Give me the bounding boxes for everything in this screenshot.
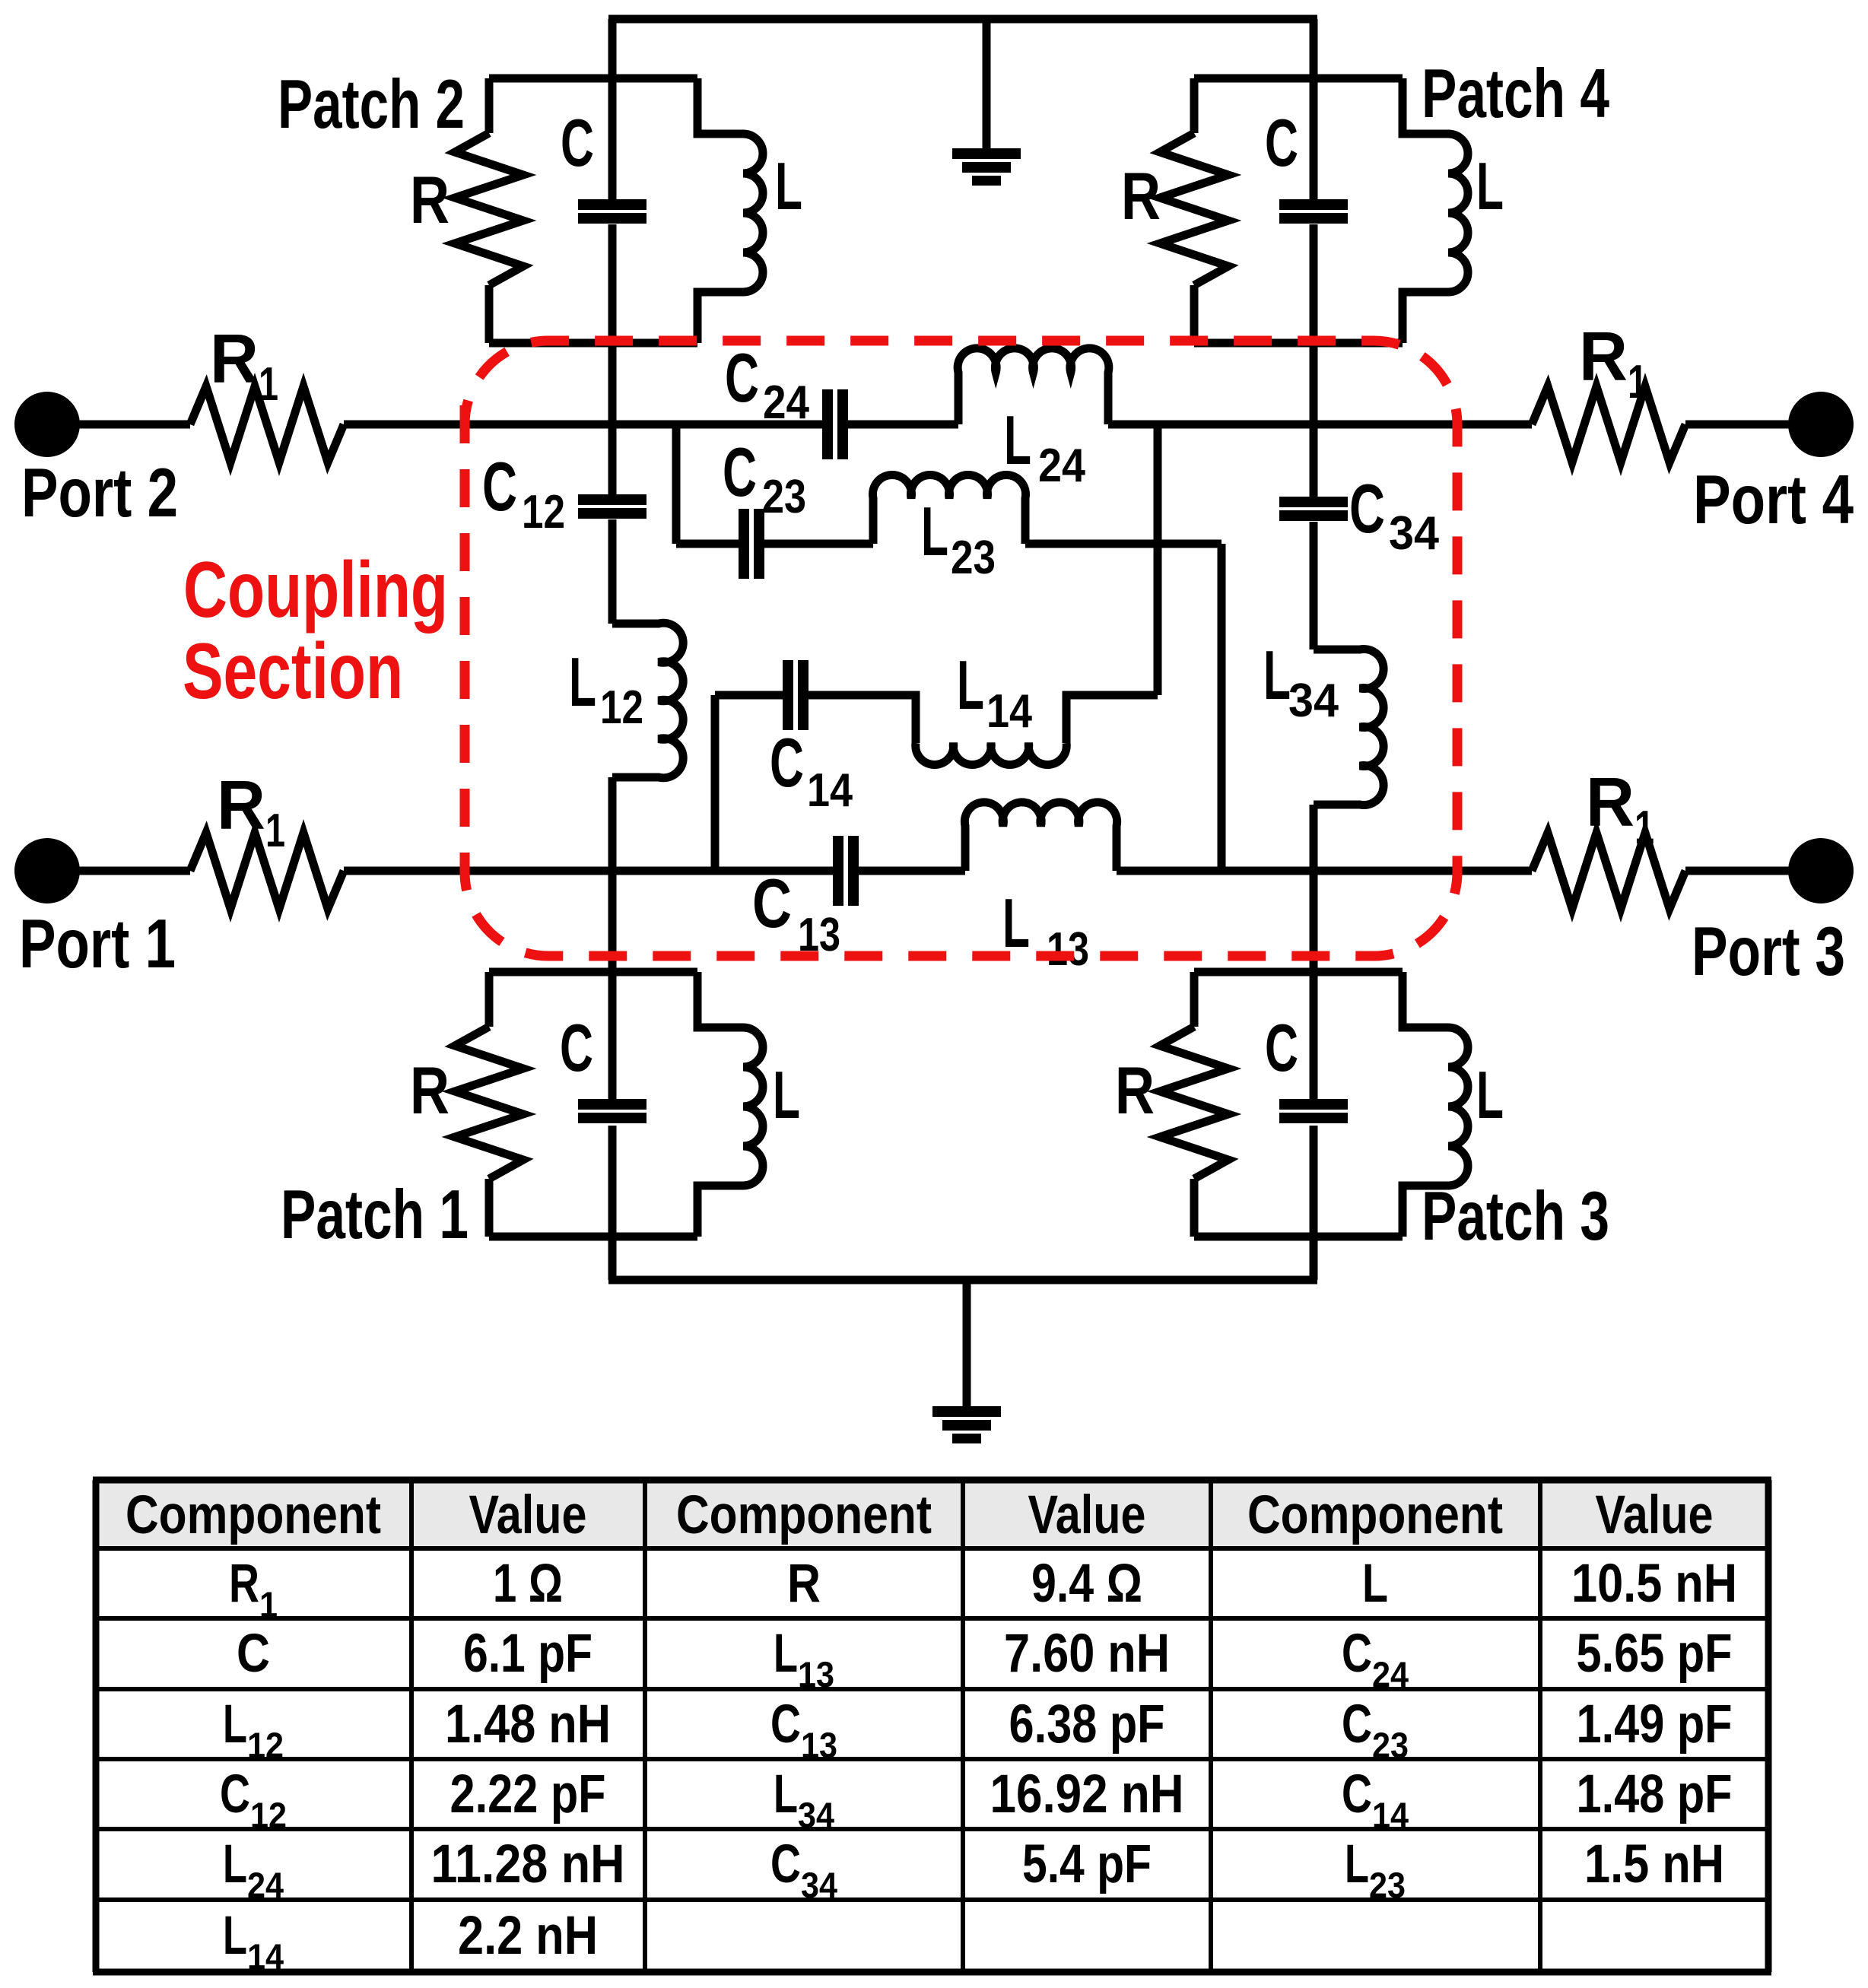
svg-text:Patch 1: Patch 1 <box>281 1177 469 1253</box>
svg-text:12: 12 <box>250 1795 287 1835</box>
svg-text:C: C <box>1342 1624 1372 1684</box>
wire L13 to port3 R1 <box>1117 867 1532 875</box>
wire patch box bottom edge (patch 2) <box>489 339 697 348</box>
svg-text:14: 14 <box>1372 1795 1409 1835</box>
svg-text:12: 12 <box>522 486 565 538</box>
svg-text:R: R <box>210 321 259 398</box>
svg-text:R: R <box>1586 764 1634 841</box>
svg-text:34: 34 <box>1288 675 1339 727</box>
capacitor C patch (patch 4) <box>1279 199 1348 210</box>
svg-text:R: R <box>410 162 450 237</box>
svg-text:34: 34 <box>1389 507 1439 560</box>
wire C23 branch vertical <box>672 424 681 544</box>
wire patch L top lead (patch 3) <box>1403 972 1448 1027</box>
svg-text:1.48 nH: 1.48 nH <box>445 1694 611 1755</box>
wire patch R top lead (patch 4) <box>1190 78 1199 133</box>
wire patch box bottom edge (patch 4) <box>1194 339 1403 348</box>
svg-text:23: 23 <box>762 471 806 523</box>
svg-text:L: L <box>569 644 596 721</box>
table header background <box>96 1480 1768 1548</box>
ground bottom <box>932 1406 1001 1417</box>
wire patch R bottom lead (patch 4) <box>1190 285 1199 343</box>
svg-text:13: 13 <box>798 1654 834 1694</box>
svg-text:11.28 nH: 11.28 nH <box>431 1834 625 1894</box>
wire L14 branch to port2 line <box>1154 424 1162 695</box>
svg-text:12: 12 <box>600 681 643 734</box>
wire C14 branch vertical <box>711 695 720 871</box>
wire L14 to up vertical <box>1066 695 1158 743</box>
svg-text:6.38 pF: 6.38 pF <box>1009 1694 1165 1755</box>
svg-text:34: 34 <box>798 1795 834 1835</box>
wire top rail <box>608 15 1317 24</box>
svg-text:24: 24 <box>247 1865 284 1905</box>
svg-text:7.60 nH: 7.60 nH <box>1004 1624 1170 1684</box>
svg-text:C: C <box>1265 105 1298 180</box>
inductor L12 <box>612 623 683 778</box>
svg-text:R: R <box>1579 319 1628 395</box>
svg-text:23: 23 <box>1369 1865 1406 1905</box>
inductor L patch (patch 1) <box>743 1027 763 1186</box>
svg-text:C: C <box>770 1694 801 1755</box>
svg-text:C: C <box>560 1010 593 1085</box>
capacitor C14 <box>783 660 793 730</box>
resistor R1 port2 <box>190 386 344 462</box>
svg-text:1.49 pF: 1.49 pF <box>1577 1694 1733 1755</box>
svg-text:1.48 pF: 1.48 pF <box>1577 1764 1733 1824</box>
wire patch L top lead (patch 1) <box>697 972 743 1027</box>
wire patch box top edge (patch 2) <box>489 75 697 83</box>
svg-text:R: R <box>217 767 265 844</box>
wire R1 to C24 <box>344 421 824 429</box>
wire C23 to L23 <box>762 540 873 548</box>
inductor L24 <box>958 348 1109 424</box>
svg-text:2.2 nH: 2.2 nH <box>458 1906 598 1966</box>
capacitor C34 <box>1279 497 1348 507</box>
wire C24 to L24 <box>846 421 958 429</box>
svg-text:L: L <box>1476 1057 1504 1132</box>
svg-text:Port 2: Port 2 <box>21 455 178 532</box>
inductor L34 <box>1314 649 1384 805</box>
wire left bus upper <box>608 19 617 199</box>
svg-text:L: L <box>773 1057 800 1132</box>
svg-text:R: R <box>410 1053 450 1128</box>
wire left bus L12 to patch1-C <box>608 777 617 1099</box>
wire patch box bottom edge (patch 3) <box>1194 1233 1403 1241</box>
svg-text:13: 13 <box>801 1725 837 1765</box>
wire left bus patch1-C to rail <box>608 1126 617 1280</box>
svg-text:34: 34 <box>801 1865 837 1905</box>
svg-text:C: C <box>237 1624 270 1684</box>
svg-text:14: 14 <box>247 1936 284 1977</box>
svg-text:C: C <box>1342 1694 1372 1755</box>
wire R1 to port3 <box>1685 867 1821 875</box>
svg-text:Component: Component <box>676 1485 932 1545</box>
svg-text:1: 1 <box>259 1584 278 1624</box>
svg-text:C: C <box>723 434 757 511</box>
svg-text:L: L <box>223 1694 247 1755</box>
port 3 terminal <box>1788 838 1854 903</box>
svg-text:L: L <box>775 148 802 224</box>
svg-text:9.4 Ω: 9.4 Ω <box>1031 1554 1142 1614</box>
wire R1 to port4 <box>1685 421 1821 429</box>
svg-text:13: 13 <box>1047 923 1089 976</box>
svg-text:L: L <box>223 1834 247 1894</box>
capacitor C13 <box>833 836 843 906</box>
resistor R1 port4 <box>1532 386 1685 462</box>
svg-text:C: C <box>752 865 792 942</box>
svg-text:C: C <box>1349 471 1385 548</box>
svg-text:L: L <box>957 647 984 724</box>
svg-text:C: C <box>725 340 759 417</box>
table grid <box>93 1480 100 1972</box>
wire L23 branch to port1 line <box>1218 544 1226 871</box>
wire bottom rail <box>608 1276 1317 1285</box>
wire patch box top edge (patch 3) <box>1194 968 1403 977</box>
wire C13 to L13 <box>856 867 965 875</box>
port 1 terminal <box>14 838 80 903</box>
svg-text:L: L <box>1345 1834 1369 1894</box>
capacitor C patch (patch 1) <box>578 1099 646 1110</box>
wire patch box bottom edge (patch 1) <box>489 1233 697 1241</box>
wire patch box top edge (patch 4) <box>1194 75 1403 83</box>
wire right bus patch4-C to C34 <box>1310 224 1318 497</box>
svg-text:Section: Section <box>183 627 403 716</box>
inductor L13 <box>964 802 1117 871</box>
svg-text:L: L <box>1002 885 1030 962</box>
svg-text:L: L <box>223 1906 247 1966</box>
svg-text:C: C <box>220 1764 250 1824</box>
svg-text:Value: Value <box>1596 1485 1714 1545</box>
svg-text:1: 1 <box>259 358 278 411</box>
coupling section dashed box <box>465 341 1457 956</box>
inductor L patch (patch 4) <box>1448 134 1468 292</box>
svg-text:23: 23 <box>951 532 996 584</box>
svg-text:L: L <box>774 1624 798 1684</box>
svg-text:6.1 pF: 6.1 pF <box>463 1624 592 1684</box>
wire patch L bottom lead (patch 4) <box>1403 292 1448 343</box>
inductor L patch (patch 3) <box>1448 1027 1468 1186</box>
capacitor C patch (patch 3) <box>1279 1099 1348 1110</box>
wire patch R bottom lead (patch 2) <box>485 285 494 343</box>
wire patch R top lead (patch 1) <box>485 972 494 1027</box>
wire bottom ground stub <box>963 1280 971 1408</box>
svg-text:12: 12 <box>247 1725 284 1765</box>
svg-text:Component: Component <box>1247 1485 1503 1545</box>
inductor L14 <box>916 743 1067 765</box>
capacitor C23 <box>739 509 749 579</box>
wire right bus upper <box>1310 19 1318 199</box>
wire patch R top lead (patch 3) <box>1190 972 1199 1027</box>
wire right bus patch3-C to rail <box>1310 1126 1318 1280</box>
svg-text:R: R <box>229 1554 259 1614</box>
svg-text:C: C <box>482 449 517 526</box>
resistor R1 port3 <box>1532 833 1685 909</box>
wire port2 to R1 <box>47 421 190 429</box>
svg-text:Coupling: Coupling <box>183 546 448 634</box>
wire patch box top edge (patch 1) <box>489 968 697 977</box>
svg-text:R: R <box>1121 158 1161 233</box>
svg-text:L: L <box>1476 148 1504 224</box>
svg-text:2.22 pF: 2.22 pF <box>450 1764 606 1824</box>
resistor R patch (patch 3) <box>1160 1027 1228 1179</box>
svg-text:C: C <box>1265 1010 1298 1085</box>
svg-text:Patch 3: Patch 3 <box>1422 1178 1609 1255</box>
resistor R patch (patch 1) <box>455 1027 523 1179</box>
wire C14 branch left <box>715 691 786 700</box>
svg-text:L: L <box>1004 402 1031 479</box>
svg-text:1: 1 <box>1628 356 1647 408</box>
wire patch L top lead (patch 4) <box>1403 78 1448 134</box>
svg-text:Port 3: Port 3 <box>1692 913 1845 990</box>
svg-text:Value: Value <box>469 1485 587 1545</box>
svg-text:10.5 nH: 10.5 nH <box>1571 1554 1737 1614</box>
wire L23 to right vertical <box>1025 540 1222 548</box>
svg-text:C: C <box>770 725 804 802</box>
wire patch R bottom lead (patch 3) <box>1190 1179 1199 1237</box>
ground top <box>952 148 1021 159</box>
svg-text:Component: Component <box>125 1485 381 1545</box>
inductor L23 <box>873 475 1026 544</box>
svg-text:Patch 2: Patch 2 <box>278 66 465 143</box>
svg-text:R: R <box>787 1554 821 1614</box>
wire C23 branch left <box>676 540 742 548</box>
svg-text:1 Ω: 1 Ω <box>493 1554 563 1614</box>
svg-text:5.65 pF: 5.65 pF <box>1577 1624 1733 1684</box>
resistor R1 port1 <box>190 833 344 909</box>
resistor R patch (patch 4) <box>1160 133 1228 285</box>
wire top ground stub <box>983 19 991 150</box>
wire port1 to R1 <box>47 867 190 875</box>
svg-text:Patch 4: Patch 4 <box>1422 56 1609 132</box>
svg-text:L: L <box>1362 1554 1388 1614</box>
svg-text:C: C <box>561 105 594 180</box>
svg-text:L: L <box>774 1764 798 1824</box>
wire patch L bottom lead (patch 2) <box>697 292 743 343</box>
svg-text:L: L <box>1263 637 1291 714</box>
wire L24 to port4 R1 <box>1108 421 1532 429</box>
svg-text:R: R <box>1115 1053 1155 1128</box>
wire patch R top lead (patch 2) <box>485 78 494 133</box>
svg-text:L: L <box>921 494 948 570</box>
wire left bus patch2-C to C12 <box>608 224 617 494</box>
wire R1 to C13 <box>344 867 835 875</box>
resistor R patch (patch 2) <box>455 133 523 285</box>
inductor L patch (patch 2) <box>743 134 763 292</box>
svg-text:1.5 nH: 1.5 nH <box>1584 1834 1724 1894</box>
wire C14 to L14 <box>806 695 916 743</box>
svg-text:5.4 pF: 5.4 pF <box>1022 1834 1152 1894</box>
svg-text:Value: Value <box>1028 1485 1146 1545</box>
svg-text:Port 4: Port 4 <box>1693 462 1854 538</box>
wire patch L top lead (patch 2) <box>697 78 743 134</box>
svg-text:24: 24 <box>1372 1654 1409 1694</box>
capacitor C24 <box>822 389 833 459</box>
svg-text:23: 23 <box>1372 1725 1409 1765</box>
svg-text:C: C <box>1342 1764 1372 1824</box>
wire patch R bottom lead (patch 1) <box>485 1179 494 1237</box>
wire left bus C12 to L12 <box>608 519 617 624</box>
capacitor C12 <box>578 494 646 505</box>
svg-text:14: 14 <box>986 685 1032 738</box>
svg-text:14: 14 <box>807 764 853 817</box>
svg-text:1: 1 <box>1634 802 1654 854</box>
port 2 terminal <box>14 392 80 457</box>
svg-text:1: 1 <box>265 805 285 857</box>
svg-text:24: 24 <box>1038 440 1085 492</box>
svg-text:24: 24 <box>763 376 809 429</box>
svg-text:16.92 nH: 16.92 nH <box>990 1764 1184 1824</box>
wire right bus C34 to L34 <box>1310 522 1318 649</box>
wire patch L bottom lead (patch 1) <box>697 1186 743 1237</box>
wire right bus L34 to patch3-C <box>1310 805 1318 1099</box>
svg-text:Port 1: Port 1 <box>19 906 176 983</box>
port 4 terminal <box>1788 392 1854 457</box>
capacitor C patch (patch 2) <box>578 199 646 210</box>
wire patch L bottom lead (patch 3) <box>1403 1186 1448 1237</box>
svg-text:C: C <box>770 1834 801 1894</box>
